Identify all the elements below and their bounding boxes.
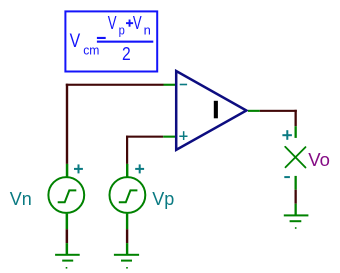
pin stub: op-amp output (green) [248,110,260,112]
op-amp minus sign (teal) [180,84,187,86]
differential marker X at node Vo (green) [285,147,305,168]
pin stub: Vn source top (green) [66,164,69,177]
pin stub: middle ground top (green) [126,243,128,255]
wire: output net vertical (maroon) [295,110,297,126]
Vo plus polarity mark (teal) [282,134,292,136]
ground symbol right (0) [284,214,309,216]
voltage source Vp circle [110,177,146,213]
svg-text:V: V [108,13,117,33]
Vp plus polarity (teal) [135,168,144,170]
formula fraction bar (merged with equals bottom bar) [97,41,153,43]
op-amp plus sign (teal) [179,136,187,138]
svg-text:Vp: Vp [152,189,174,209]
op-amp label I [214,101,218,119]
wire: output net horizontal (maroon) [260,110,297,112]
svg-text:Vn: Vn [10,189,32,209]
formula equals top bar [97,37,106,39]
formula plus sign [126,22,133,24]
Vp PWL waveform symbol [119,190,138,202]
svg-text:Vo: Vo [308,149,330,170]
wire: Vn to ground (maroon) [66,229,69,243]
wire: inverting net vertical down to Vn (maroon) [66,84,68,164]
op-amp U1 triangle [176,71,246,150]
pin stub: right ground top (green) [295,204,297,216]
pin stub: left ground top (green) [66,243,69,255]
formula box border [65,11,157,71]
svg-text:cm: cm [83,44,99,58]
wire: inverting net horizontal (maroon) [66,84,164,86]
voltage source Vn circle [48,177,84,213]
svg-text:V: V [70,30,81,52]
pin stub: Vp source top (green) [126,164,128,177]
wire: non-inverting net vertical down to Vp (maroon) [126,136,128,164]
pin stub: probe bottom (green) [295,176,297,190]
wire: Vp to ground (maroon) [126,229,128,243]
ground symbol left (0) [55,254,80,256]
svg-text:V: V [133,13,142,33]
Vn PWL waveform symbol [58,190,77,202]
pin stub: probe top (green) [295,126,297,138]
svg-text:2: 2 [122,44,131,64]
Vn plus polarity (teal) [74,168,83,170]
Vo minus polarity mark (teal) [284,176,290,178]
svg-text:n: n [144,22,151,37]
wire: output ground vertical (maroon) [295,190,297,204]
ground symbol middle (0) [114,254,139,256]
pin stub: op-amp non-inverting input (green) [163,136,175,138]
wire: non-inverting net horizontal (maroon) [126,136,163,138]
pin stub: op-amp inverting input (green) [164,84,176,86]
pin stub: Vp source bottom (green) [126,214,128,230]
pin stub: Vn source bottom (green) [66,214,69,230]
svg-text:p: p [119,22,125,37]
